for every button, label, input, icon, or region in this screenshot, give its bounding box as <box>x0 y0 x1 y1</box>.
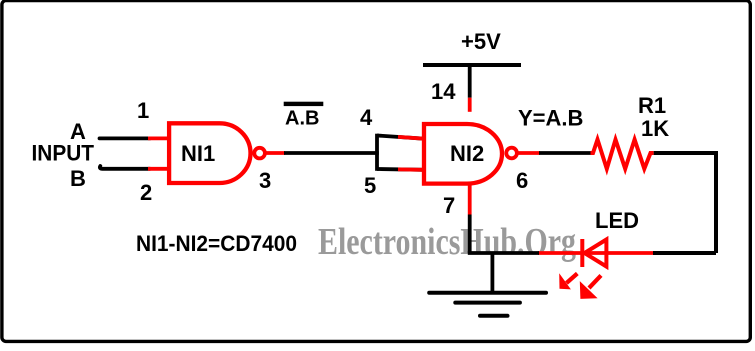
svg-text:6: 6 <box>516 168 528 193</box>
svg-text:A.B: A.B <box>285 108 319 130</box>
svg-text:1: 1 <box>137 98 149 123</box>
LED arrow 2 <box>580 275 601 299</box>
svg-text:1K: 1K <box>641 116 669 141</box>
wire input B red <box>148 167 169 171</box>
svg-text:ElectronicsHub.Org: ElectronicsHub.Org <box>318 221 576 263</box>
svg-text:4: 4 <box>360 105 373 130</box>
wire branch to pin 5 black <box>377 167 424 172</box>
wire branch to pin 4 black <box>377 136 424 139</box>
svg-text:NI1-NI2=CD7400: NI1-NI2=CD7400 <box>136 231 297 256</box>
svg-text:NI2: NI2 <box>450 141 484 166</box>
wire junction to LED black <box>468 251 539 255</box>
wire branch to pin 5 red <box>398 167 424 171</box>
NI1 output bubble <box>254 148 265 159</box>
wire LED segment red <box>538 251 653 255</box>
svg-text:5: 5 <box>364 173 376 198</box>
resistor R1 <box>591 140 654 169</box>
svg-text:B: B <box>70 166 86 191</box>
wire corner to LED black <box>653 251 716 255</box>
svg-text:NI1: NI1 <box>181 141 215 166</box>
wire NI1 output black <box>284 151 379 155</box>
LED D1 <box>582 239 606 267</box>
wire split vertical <box>375 134 379 171</box>
svg-text:3: 3 <box>259 168 271 193</box>
svg-text:LED: LED <box>595 208 639 233</box>
wire NI2 output red <box>518 151 541 155</box>
svg-text:INPUT: INPUT <box>32 141 95 166</box>
wire ground stem <box>490 253 494 293</box>
wire branch to pin 4 red <box>398 137 424 139</box>
wire resistor to corner <box>654 153 716 253</box>
NAND gate NI2 <box>424 124 502 184</box>
NI2 output bubble <box>506 148 517 159</box>
wire pin 7 red <box>468 184 472 215</box>
+5V rail <box>423 63 521 67</box>
wire input A red <box>148 136 169 140</box>
wire pin 14 black <box>468 65 472 98</box>
LED arrow 1 <box>559 273 577 289</box>
svg-text:14: 14 <box>431 79 456 104</box>
svg-text:7: 7 <box>443 193 455 218</box>
wire pin 7 black <box>468 215 472 254</box>
ground <box>429 293 546 316</box>
wire pin 14 red <box>468 98 472 112</box>
wire input A black <box>100 136 151 140</box>
NAND gate NI1 <box>169 123 250 183</box>
svg-text:2: 2 <box>140 180 152 205</box>
node A.B label overbar <box>284 102 324 106</box>
wire NI1 output red <box>266 151 285 155</box>
wire NI2 output black <box>539 151 591 155</box>
svg-text:Y=A.B: Y=A.B <box>518 106 583 131</box>
svg-text:R1: R1 <box>638 93 666 118</box>
svg-text:+5V: +5V <box>461 29 501 54</box>
wire input B black <box>100 166 150 169</box>
